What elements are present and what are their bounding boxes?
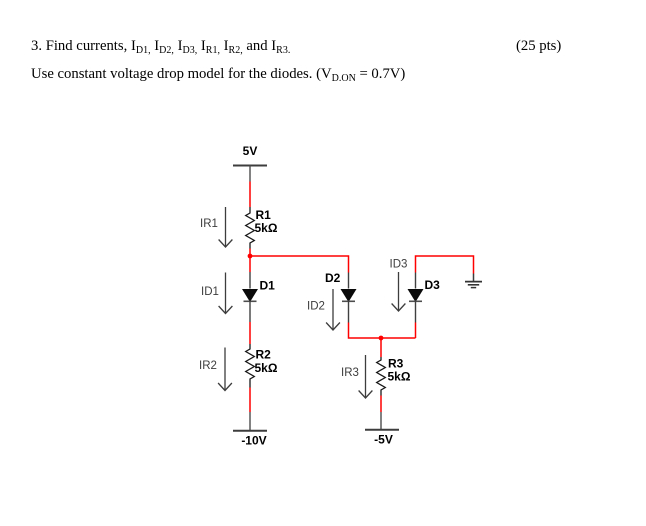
svg-text:IR3: IR3	[341, 367, 359, 379]
label R1	[256, 208, 272, 222]
label 5kΩ (R2)	[255, 361, 278, 375]
label IR3	[341, 367, 359, 379]
label 5kΩ (R1)	[255, 221, 278, 235]
problem statement line 1	[31, 39, 290, 54]
current arrow ID2	[326, 289, 340, 330]
svg-text:D2: D2	[325, 271, 341, 285]
svg-text:5kΩ: 5kΩ	[255, 361, 278, 375]
current arrow ID3	[392, 272, 406, 311]
label IR2	[199, 360, 217, 372]
svg-text:IR1: IR1	[200, 218, 218, 230]
svg-text:-10V: -10V	[241, 434, 266, 448]
svg-text:5kΩ: 5kΩ	[388, 370, 411, 384]
wire node B to R3	[380, 338, 382, 357]
node A junction dot	[248, 254, 253, 259]
svg-text:5kΩ: 5kΩ	[255, 221, 278, 235]
svg-text:ID3: ID3	[390, 259, 408, 271]
label D2	[325, 271, 341, 285]
resistor R1	[246, 207, 255, 249]
label 5V	[243, 144, 258, 158]
svg-text:D3: D3	[425, 278, 441, 292]
label ID1	[201, 286, 219, 298]
power symbol -5V	[365, 412, 399, 430]
resistor R2	[246, 344, 255, 388]
svg-text:IR2: IR2	[199, 360, 217, 372]
wire R3 to -5V	[380, 396, 382, 413]
current arrow IR3	[359, 355, 373, 398]
svg-text:5V: 5V	[243, 144, 258, 158]
wire 5V to R1	[249, 182, 251, 208]
label -5V	[374, 433, 393, 447]
diode D1	[242, 272, 258, 322]
svg-text:ID2: ID2	[307, 301, 325, 313]
wire node A to D1	[249, 256, 251, 272]
wire node A to D2	[250, 256, 349, 273]
wire D3 to ground	[416, 256, 474, 274]
svg-text:-5V: -5V	[374, 433, 393, 447]
current arrow ID1	[219, 273, 233, 314]
power symbol -10V	[233, 412, 267, 431]
label ID3	[390, 259, 408, 271]
wire D2 to node B	[349, 323, 416, 339]
label D3	[425, 278, 441, 292]
label ID2	[307, 301, 325, 313]
svg-text:ID1: ID1	[201, 286, 219, 298]
current arrow IR2	[218, 348, 232, 391]
diode D3	[408, 273, 424, 323]
diode D2	[341, 273, 357, 323]
wire R1 to node A	[249, 249, 251, 257]
resistor R3	[377, 357, 386, 396]
current arrow IR1	[219, 207, 233, 247]
svg-text:D1: D1	[260, 279, 276, 293]
label D1	[260, 279, 276, 293]
label IR1	[200, 218, 218, 230]
problem statement line 2	[31, 67, 405, 82]
svg-text:R3: R3	[388, 357, 404, 371]
node B junction dot	[379, 336, 384, 341]
label R3	[388, 357, 404, 371]
wire D1 to R2	[249, 322, 251, 344]
label -10V	[241, 434, 266, 448]
wire R2 to -10V	[249, 388, 251, 413]
points label	[516, 39, 561, 54]
power symbol 5V	[233, 166, 267, 182]
label R2	[256, 348, 272, 362]
label 5kΩ (R3)	[388, 370, 411, 384]
ground	[465, 274, 482, 288]
svg-text:R1: R1	[256, 208, 272, 222]
wire D3 to node B	[415, 323, 417, 339]
svg-text:R2: R2	[256, 348, 272, 362]
